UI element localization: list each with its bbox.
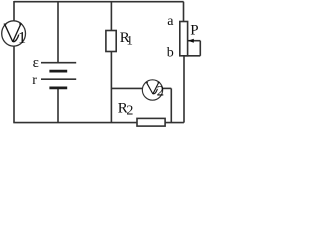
svg-text:1: 1 <box>18 28 26 47</box>
svg-text:a: a <box>167 14 174 29</box>
svg-text:1: 1 <box>126 32 132 47</box>
svg-text:P: P <box>190 22 198 38</box>
svg-text:2: 2 <box>126 104 133 119</box>
svg-text:b: b <box>167 46 174 61</box>
svg-text:ε: ε <box>33 55 39 71</box>
svg-text:2: 2 <box>157 83 165 99</box>
svg-text:r: r <box>32 73 37 88</box>
